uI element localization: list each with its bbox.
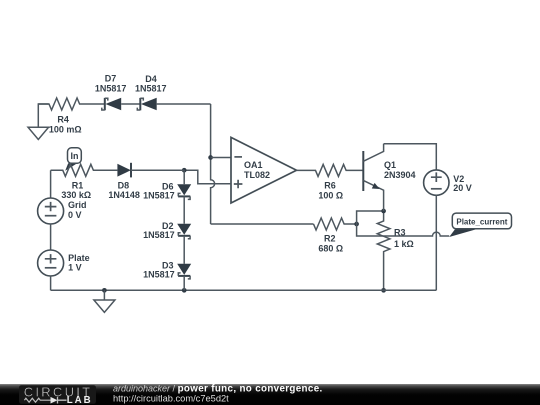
voltage source V3 (Plate)	[38, 250, 64, 276]
wire: wiper network from emitter node through hop to flag	[357, 211, 450, 236]
svg-text:D8: D8	[118, 181, 130, 191]
wire: feedback row to R2	[211, 223, 314, 225]
CircuitLab logo	[24, 384, 91, 405]
svg-text:20 V: 20 V	[453, 183, 472, 193]
voltage source V2	[424, 170, 449, 195]
diode D7 (Schottky 1N5817)	[102, 98, 121, 111]
svg-text:1N4148: 1N4148	[108, 190, 140, 200]
svg-text:1N5817: 1N5817	[143, 270, 175, 280]
wire: node A to op-amp inverting input	[211, 157, 231, 159]
wire: D8 cathode to node	[131, 169, 184, 171]
wire: D4 anode to node A	[157, 103, 211, 105]
svg-text:TL082: TL082	[244, 170, 270, 180]
svg-text:D7: D7	[105, 74, 117, 84]
svg-text:0 V: 0 V	[68, 210, 82, 220]
wire: Grid to Plate	[50, 224, 52, 250]
wire: collector to V2 top	[384, 144, 437, 170]
svg-text:http://circuitlab.com/c7e5d2t: http://circuitlab.com/c7e5d2t	[113, 394, 229, 404]
wire: node to D6	[183, 170, 185, 184]
resistor R1	[51, 164, 118, 176]
wire: D3 to rail	[183, 276, 185, 290]
net flag Plate_current	[449, 213, 511, 237]
svg-text:680 Ω: 680 Ω	[318, 244, 343, 254]
svg-text:1 kΩ: 1 kΩ	[394, 239, 414, 249]
diode D2 (Schottky 1N5817)	[177, 224, 191, 239]
diode D3 (Schottky 1N5817)	[177, 264, 191, 279]
footer bar	[0, 384, 540, 405]
svg-text:1N5817: 1N5817	[95, 83, 127, 93]
svg-text:In: In	[71, 151, 79, 161]
wire: V2 bottom to ground rail	[435, 195, 437, 290]
wire: node A vertical with hop over noninverting wire	[211, 104, 215, 224]
resistor R2	[314, 218, 357, 230]
wire: R4 left lead to ground stem	[38, 104, 48, 127]
junction: diode chain bottom	[182, 288, 187, 293]
svg-text:R2: R2	[324, 234, 336, 244]
svg-text:2N3904: 2N3904	[384, 170, 416, 180]
svg-text:R6: R6	[324, 181, 336, 191]
svg-text:R3: R3	[394, 227, 406, 237]
wire: D6 to D2	[183, 196, 185, 223]
svg-text:1N5817: 1N5817	[143, 230, 175, 240]
diode D4 (Schottky 1N5817)	[137, 98, 156, 111]
svg-text:Plate: Plate	[68, 253, 90, 263]
resistor R6	[297, 164, 364, 176]
net flag In	[65, 148, 81, 171]
wire: input column top corner to Grid source	[50, 170, 52, 198]
junction: R2 / wiper node	[354, 222, 359, 227]
svg-text:1N5817: 1N5817	[143, 190, 175, 200]
svg-text:R4: R4	[57, 115, 69, 125]
junction: D8 output node	[182, 168, 187, 173]
svg-text:330 kΩ: 330 kΩ	[61, 190, 91, 200]
wire: bottom ground rail	[51, 289, 437, 291]
voltage source V1 (Grid)	[38, 198, 64, 224]
resistor R4	[38, 98, 105, 110]
wire: D7 anode to D4 cathode	[121, 103, 140, 105]
svg-text:Q1: Q1	[384, 160, 396, 170]
svg-text:D4: D4	[145, 74, 157, 84]
svg-text:1N5817: 1N5817	[135, 83, 167, 93]
op-amp OA1	[231, 137, 297, 203]
ground (bottom)	[94, 290, 115, 312]
svg-text:LAB: LAB	[67, 395, 91, 405]
transistor Q1 (NPN 2N3904)	[363, 144, 383, 211]
potentiometer R3	[377, 211, 390, 290]
wire: noninverting input from diode node	[184, 170, 231, 184]
svg-text:Plate_current: Plate_current	[456, 216, 507, 226]
junction: R3 bottom node	[381, 288, 386, 293]
diode D8 (1N4148)	[117, 163, 131, 178]
svg-text:100 mΩ: 100 mΩ	[49, 124, 82, 134]
svg-text:1 V: 1 V	[68, 262, 82, 272]
svg-text:100 Ω: 100 Ω	[318, 191, 343, 201]
junction: rail at ground stem	[102, 288, 107, 293]
wire: D2 to D3	[183, 236, 185, 264]
junction: inverting input node	[208, 155, 213, 160]
diode D6 (Schottky 1N5817)	[177, 184, 191, 199]
svg-text:Grid: Grid	[68, 200, 87, 210]
ground (top left)	[28, 127, 49, 139]
junction: emitter node	[381, 209, 386, 214]
svg-text:OA1: OA1	[244, 160, 263, 170]
wire: Plate bottom to rail	[50, 276, 52, 290]
